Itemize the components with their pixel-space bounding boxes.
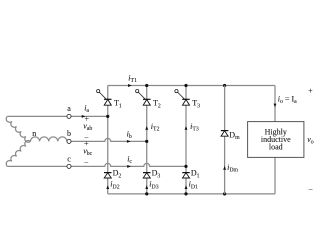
diode D2 (104, 169, 121, 180)
svg-text:iT3: iT3 (190, 122, 199, 133)
svg-text:−: − (308, 185, 313, 194)
svg-text:iD3: iD3 (149, 180, 158, 191)
node bottom bus leg3 (184, 192, 187, 195)
diode D1 (182, 169, 199, 180)
svg-text:ia: ia (84, 103, 89, 114)
terminal b (67, 139, 71, 143)
node phase a junction (106, 115, 109, 118)
diode Dm (221, 130, 240, 141)
svg-text:b: b (67, 129, 71, 138)
winding c (phase c coil, diagonal) (6, 140, 30, 166)
wire leg 3 (185, 86, 187, 194)
svg-text:T3: T3 (192, 99, 200, 110)
current arrow i_T2 (145, 126, 148, 130)
current arrow i_b (127, 140, 131, 143)
svg-text:T2: T2 (153, 99, 161, 110)
current arrow i_a (82, 115, 86, 118)
node top bus Dm (223, 84, 226, 87)
node bottom bus Dm (223, 192, 226, 195)
current arrow i_o = I_a (274, 104, 277, 108)
wire load bottom drop (274, 157, 276, 194)
winding b (phase b coil, horizontal) (31, 137, 67, 142)
thyristor T2 (136, 90, 161, 110)
svg-text:D3: D3 (152, 169, 161, 180)
wire phase a (7, 115, 107, 117)
node bottom bus leg2 (145, 192, 148, 195)
current arrow i_T3 (185, 126, 188, 130)
wire leg 2 (146, 86, 148, 194)
wire phase c with hops over legs 1 and 2 (7, 163, 186, 166)
svg-text:D2: D2 (113, 169, 122, 180)
svg-text:ic: ic (127, 155, 132, 166)
winding a (phase a coil, diagonal) (6, 116, 30, 142)
svg-text:a: a (67, 104, 71, 113)
svg-text:ib: ib (127, 130, 132, 141)
thyristor T3 (175, 90, 200, 110)
wire phase b with hop over leg 1 (69, 138, 147, 141)
thyristor T1 (97, 90, 122, 110)
svg-text:load: load (269, 143, 283, 152)
wire freewheeling diode branch (224, 86, 226, 194)
svg-text:vo: vo (307, 135, 314, 146)
current arrow i_D2 (106, 185, 109, 189)
svg-text:iD1: iD1 (189, 180, 198, 191)
current arrow i_D1 (185, 185, 188, 189)
svg-text:iD2: iD2 (110, 180, 119, 191)
terminal c (67, 164, 71, 168)
current arrow i_Dm (223, 166, 226, 170)
wire top bus (108, 85, 275, 87)
terminal a (67, 114, 71, 118)
node phase c junction (184, 165, 187, 168)
diode D3 (143, 169, 160, 180)
wire load top drop (274, 86, 276, 122)
node top bus leg3 (184, 84, 187, 87)
svg-text:n: n (32, 129, 36, 138)
svg-text:+: + (308, 87, 313, 96)
svg-text:D1: D1 (191, 169, 200, 180)
svg-text:T1: T1 (114, 99, 122, 110)
svg-text:Dm: Dm (229, 130, 240, 141)
svg-text:iT1: iT1 (128, 73, 137, 84)
current arrow i_D3 (145, 185, 148, 189)
svg-text:io = Ia: io = Ia (278, 95, 297, 106)
svg-text:iDm: iDm (227, 163, 238, 174)
svg-text:c: c (67, 155, 71, 164)
load box (248, 122, 304, 158)
wire leg 1 (107, 86, 109, 194)
current arrow i_c (127, 165, 131, 168)
current arrow i_T1 (128, 84, 132, 87)
node top bus leg2 (145, 84, 148, 87)
wire bottom bus (108, 193, 275, 195)
svg-text:iT2: iT2 (151, 122, 160, 133)
node phase b junction (145, 140, 148, 143)
